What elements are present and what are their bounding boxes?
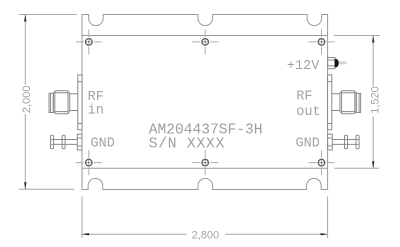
dimension 2,000 top arrowhead — [24, 15, 26, 22]
svg-text:RF: RF — [88, 90, 104, 105]
dimension 1,520: extension and dimension lines (right) — [334, 36, 380, 169]
dimension 2,000 bottom arrowhead — [24, 182, 26, 189]
J1 threaded end cap — [49, 93, 53, 112]
+12V terminal solder bullet — [335, 59, 339, 68]
mounting hole H4 (bottom left) with center mark — [76, 150, 102, 175]
J1 flange plate — [78, 75, 82, 130]
dimension 2,800 right arrowhead — [321, 233, 328, 235]
svg-text:S/N XXXX: S/N XXXX — [149, 137, 225, 153]
chassis outline with mounting-flange notches — [82, 15, 328, 190]
GND feedthrough terminal E2 (right side) — [328, 134, 360, 150]
mounting hole H5 (bottom middle) with center mark — [192, 150, 218, 175]
housing body bottom edge line — [82, 167, 328, 169]
+12V feedthrough terminal E1 body — [328, 58, 335, 69]
dimension 1,520 bottom arrowhead — [372, 161, 374, 168]
dimension 1,520 top arrowhead — [372, 36, 374, 43]
svg-text:2,800: 2,800 — [192, 230, 220, 242]
J1 hex body — [53, 91, 69, 114]
dimension 2,000: extension and dimension lines (left) — [19, 15, 77, 190]
svg-text:+12V: +12V — [287, 59, 320, 74]
mounting hole H3 (top right) with center mark — [309, 29, 335, 54]
housing body top edge line — [82, 35, 328, 37]
J1 neck — [70, 93, 78, 95]
mounting hole H2 (top middle) with center mark — [192, 29, 218, 54]
SMA connector J1 (RF in, left side) — [49, 75, 82, 130]
GND feedthrough terminal E3 (left side, mirror of E2) — [51, 134, 83, 150]
mounting hole H6 (bottom right) with center mark — [309, 150, 335, 175]
svg-text:1,520: 1,520 — [369, 86, 381, 114]
dimension 2,800 left arrowhead — [82, 233, 89, 235]
svg-text:GND: GND — [296, 137, 320, 152]
SMA connector J2 (RF out, right side, mirror of J1) — [328, 75, 361, 130]
mounting hole H1 (top left) with center mark — [76, 29, 102, 54]
dimension 2,800: extension and dimension lines (bottom) — [82, 197, 328, 239]
svg-text:RF: RF — [296, 90, 312, 105]
svg-text:2,000: 2,000 — [21, 86, 33, 114]
svg-text:out: out — [296, 105, 320, 120]
svg-text:in: in — [88, 104, 104, 119]
svg-text:GND: GND — [91, 137, 115, 152]
+12V terminal wire pin — [339, 62, 347, 64]
